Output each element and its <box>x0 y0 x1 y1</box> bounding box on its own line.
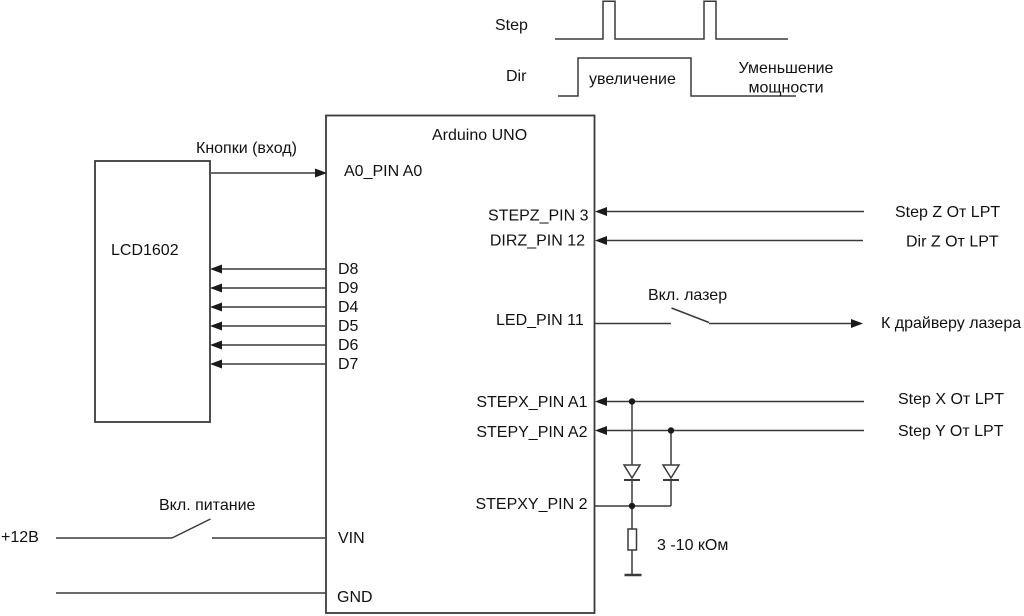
svg-text:Step Z От LPT: Step Z От LPT <box>895 204 1000 221</box>
svg-text:мощности: мощности <box>748 80 823 97</box>
svg-text:D8: D8 <box>338 261 359 278</box>
svg-text:LCD1602: LCD1602 <box>111 242 179 259</box>
svg-text:Step: Step <box>495 17 528 34</box>
svg-text:Step Y От LPT: Step Y От LPT <box>898 423 1004 440</box>
svg-text:D9: D9 <box>338 280 359 297</box>
svg-text:Кнопки (вход): Кнопки (вход) <box>196 140 297 157</box>
svg-text:Dir: Dir <box>506 68 527 85</box>
svg-text:увеличение: увеличение <box>589 71 676 88</box>
svg-text:STEPY_PIN A2: STEPY_PIN A2 <box>476 424 587 441</box>
svg-text:STEPX_PIN A1: STEPX_PIN A1 <box>476 394 587 411</box>
svg-text:+12В: +12В <box>1 529 39 546</box>
svg-text:STEPXY_PIN 2: STEPXY_PIN 2 <box>475 496 587 513</box>
svg-text:STEPZ_PIN 3: STEPZ_PIN 3 <box>488 208 589 225</box>
svg-text:D7: D7 <box>338 356 359 373</box>
svg-text:Вкл. лазер: Вкл. лазер <box>648 287 727 304</box>
svg-text:Уменьшение: Уменьшение <box>739 60 834 77</box>
svg-text:VIN: VIN <box>338 530 365 547</box>
svg-text:Вкл. питание: Вкл. питание <box>159 497 256 514</box>
svg-text:3 -10 кОм: 3 -10 кОм <box>657 537 728 554</box>
svg-text:A0_PIN A0: A0_PIN A0 <box>344 163 422 180</box>
svg-text:Arduino UNO: Arduino UNO <box>432 127 527 144</box>
svg-text:К драйверу лазера: К драйверу лазера <box>881 315 1021 332</box>
svg-text:D6: D6 <box>338 337 359 354</box>
svg-text:DIRZ_PIN 12: DIRZ_PIN 12 <box>490 233 585 250</box>
svg-text:Dir Z От LPT: Dir Z От LPT <box>906 234 999 251</box>
svg-text:D4: D4 <box>338 299 359 316</box>
svg-text:LED_PIN 11: LED_PIN 11 <box>496 312 584 329</box>
svg-text:GND: GND <box>337 589 373 606</box>
svg-text:Step X От LPT: Step X От LPT <box>898 391 1004 408</box>
svg-text:D5: D5 <box>338 318 359 335</box>
